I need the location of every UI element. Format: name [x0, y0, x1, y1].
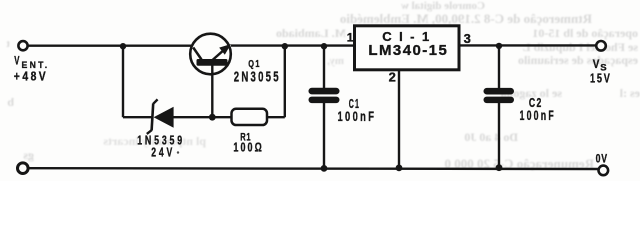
svg-text:+48V: +48V	[14, 69, 48, 83]
svg-text:V: V	[593, 57, 600, 71]
svg-text:100nF: 100nF	[520, 107, 556, 123]
svg-text:V: V	[14, 56, 19, 68]
svg-text:1: 1	[347, 30, 354, 44]
svg-text:2N3055: 2N3055	[234, 69, 281, 86]
svg-text:LM340-15: LM340-15	[368, 42, 446, 59]
svg-text:3: 3	[464, 31, 471, 46]
svg-text:2: 2	[389, 69, 396, 84]
svg-text:0V: 0V	[596, 153, 608, 165]
svg-text:100Ω: 100Ω	[233, 139, 264, 154]
svg-text:15V: 15V	[590, 70, 612, 85]
svg-text:24V: 24V	[151, 146, 175, 160]
svg-text:100nF: 100nF	[338, 108, 377, 124]
